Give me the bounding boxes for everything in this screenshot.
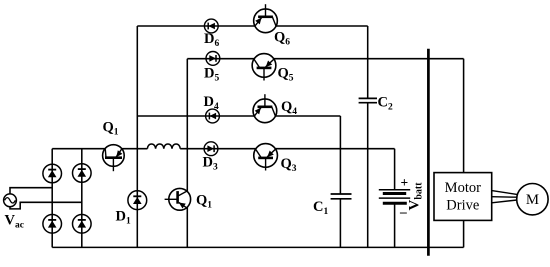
wire: vertical bus from Q6 rail through D1 bbox=[136, 26, 138, 247]
motor drive block bbox=[434, 173, 492, 221]
svg-text:M: M bbox=[526, 192, 539, 208]
wire: DC bus thick line bbox=[427, 49, 430, 256]
transistor Q1 (buck switch) bbox=[165, 188, 191, 210]
transistor Q4 bbox=[253, 94, 277, 122]
diode D4 bbox=[206, 109, 220, 123]
wire: main boost rail bbox=[52, 148, 105, 150]
AC source V_ac bbox=[4, 194, 17, 207]
diode D5 bbox=[206, 52, 220, 66]
diode bridge diode top-left bbox=[43, 164, 62, 183]
wire: battery branch vertical bbox=[394, 149, 396, 190]
wire: motor phase a bbox=[492, 191, 517, 195]
wire: bridge left column bbox=[51, 149, 53, 248]
transistor Q5 bbox=[252, 54, 276, 81]
wire: AC source lower lead bbox=[10, 202, 82, 209]
diode bridge diode bottom-left bbox=[43, 215, 62, 234]
capacitor C2 bbox=[359, 98, 377, 102]
wire: Q6 top rail bbox=[137, 25, 255, 27]
diode D6 bbox=[204, 19, 218, 33]
battery V_batt bbox=[379, 190, 410, 204]
wire: bridge right column bbox=[81, 149, 83, 248]
svg-text:+: + bbox=[401, 175, 409, 190]
diode D1 bbox=[128, 191, 147, 210]
label V_batt (rotated) bbox=[407, 182, 425, 211]
wire: bottom return rail bbox=[52, 246, 463, 248]
diode bridge diode top-right bbox=[73, 164, 92, 183]
wire: Q5 rail to motor drive bbox=[187, 58, 254, 60]
wire: motor phase b bbox=[492, 196, 517, 199]
wire: AC source upper lead bbox=[10, 188, 52, 194]
transistor Q3 bbox=[254, 144, 278, 171]
transistor Q1 (boost switch) bbox=[103, 145, 125, 172]
wire: motor drive return drop bbox=[463, 220, 465, 247]
diode D3 bbox=[204, 142, 218, 156]
svg-text:Drive: Drive bbox=[446, 198, 479, 214]
wire: Q4 rail bbox=[137, 115, 255, 117]
motor M bbox=[517, 184, 548, 215]
transistor Q6 bbox=[254, 4, 278, 32]
wire: Q4 rail drop through C1 bbox=[339, 116, 341, 194]
svg-text:Motor: Motor bbox=[445, 180, 481, 196]
wire: C2 branch vertical bbox=[367, 26, 369, 98]
capacitor C1 bbox=[331, 194, 352, 199]
diode bridge diode bottom-right bbox=[73, 215, 92, 234]
wire: motor drive feed drop bbox=[463, 59, 465, 173]
wire: vertical bus from Q5 rail through Q1 bbox=[186, 59, 188, 192]
inductor L bbox=[147, 144, 180, 149]
wire: motor phase c bbox=[492, 200, 517, 203]
